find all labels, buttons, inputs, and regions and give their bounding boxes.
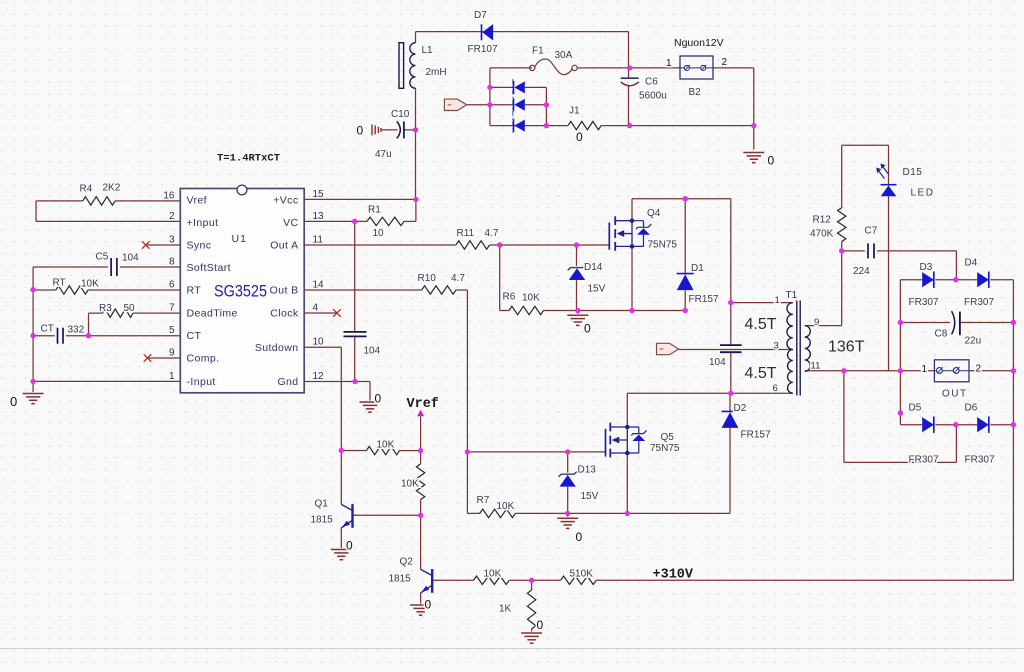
svg-text:10K: 10K (522, 293, 540, 304)
svg-text:D2: D2 (734, 403, 747, 414)
svg-text:1: 1 (922, 364, 928, 375)
svg-text:5: 5 (169, 325, 175, 336)
svg-text:+310V: +310V (653, 568, 694, 583)
svg-text:D13: D13 (578, 465, 597, 476)
svg-text:U1: U1 (232, 233, 247, 245)
svg-text:J1: J1 (569, 106, 580, 117)
svg-text:10K: 10K (401, 479, 419, 490)
svg-text:13: 13 (313, 211, 325, 222)
svg-text:C7: C7 (865, 226, 878, 237)
svg-text:Comp.: Comp. (187, 353, 220, 365)
svg-text:2K2: 2K2 (103, 183, 121, 194)
svg-text:D6: D6 (965, 403, 978, 414)
svg-text:-Input: -Input (187, 376, 216, 388)
svg-text:8: 8 (169, 257, 175, 268)
svg-text:1: 1 (666, 58, 672, 69)
svg-text:Sutdown: Sutdown (255, 342, 299, 354)
svg-text:R1: R1 (368, 205, 381, 216)
svg-text:F1: F1 (532, 46, 544, 57)
svg-text:R10: R10 (418, 273, 437, 284)
svg-text:+Input: +Input (187, 217, 219, 229)
svg-text:SG3525: SG3525 (214, 283, 267, 301)
svg-text:75N75: 75N75 (648, 240, 678, 251)
svg-text:0: 0 (584, 322, 591, 336)
svg-text:9: 9 (169, 348, 175, 359)
svg-text:Out A: Out A (270, 240, 298, 252)
svg-text:10: 10 (313, 337, 325, 348)
svg-text:470K: 470K (810, 229, 834, 240)
svg-text:CT: CT (187, 330, 202, 342)
svg-text:50: 50 (124, 303, 136, 314)
svg-text:0: 0 (537, 618, 544, 632)
svg-text:L1: L1 (422, 45, 434, 56)
svg-text:T1: T1 (786, 290, 798, 301)
svg-text:D1: D1 (691, 263, 704, 274)
svg-text:CT: CT (41, 324, 54, 335)
svg-text:FR107: FR107 (468, 44, 498, 55)
svg-text:C6: C6 (645, 77, 658, 88)
svg-text:C8: C8 (935, 329, 948, 340)
svg-text:10K: 10K (81, 279, 99, 290)
svg-text:D3: D3 (920, 262, 933, 273)
svg-text:1: 1 (169, 371, 175, 382)
svg-text:6: 6 (773, 383, 778, 394)
svg-text:D7: D7 (474, 10, 487, 21)
svg-text:R12: R12 (813, 215, 832, 226)
svg-text:9: 9 (814, 317, 819, 328)
svg-text:10: 10 (373, 228, 385, 239)
svg-text:Nguon12V: Nguon12V (674, 37, 724, 49)
svg-text:DeadTime: DeadTime (187, 308, 238, 320)
svg-text:0: 0 (425, 598, 432, 612)
svg-text:0: 0 (346, 539, 353, 553)
svg-text:11: 11 (811, 361, 821, 372)
svg-text:75N75: 75N75 (650, 443, 680, 454)
svg-text:Q5: Q5 (661, 432, 675, 443)
svg-text:VC: VC (283, 217, 298, 229)
svg-text:FR307: FR307 (964, 297, 994, 308)
svg-text:SoftStart: SoftStart (187, 262, 231, 274)
svg-text:15V: 15V (581, 491, 599, 502)
svg-text:T=1.4RTxCT: T=1.4RTxCT (217, 153, 280, 165)
svg-text:2: 2 (169, 211, 175, 222)
svg-text:332: 332 (68, 325, 85, 336)
svg-text:Vref: Vref (407, 397, 439, 412)
svg-text:4.7: 4.7 (451, 273, 465, 284)
svg-text:5600u: 5600u (639, 91, 667, 102)
svg-text:16: 16 (163, 190, 175, 201)
svg-text:510K: 510K (570, 569, 594, 580)
svg-text:30A: 30A (555, 50, 573, 61)
svg-text:3: 3 (774, 341, 779, 352)
svg-text:11: 11 (313, 235, 324, 246)
svg-text:4.7: 4.7 (485, 228, 499, 239)
svg-text:15V: 15V (588, 284, 606, 295)
svg-text:14: 14 (313, 280, 325, 291)
svg-text:136T: 136T (828, 339, 865, 356)
svg-text:D15: D15 (903, 167, 923, 178)
svg-text:47u: 47u (375, 149, 392, 160)
svg-text:7: 7 (169, 303, 175, 314)
svg-text:6: 6 (169, 280, 175, 291)
svg-text:4: 4 (313, 303, 319, 314)
svg-text:D4: D4 (965, 258, 978, 269)
svg-text:22u: 22u (965, 336, 982, 347)
svg-text:10K: 10K (377, 440, 395, 451)
svg-text:0: 0 (357, 124, 364, 138)
svg-text:224: 224 (853, 266, 870, 277)
svg-text:10K: 10K (484, 569, 502, 580)
svg-text:+Vcc: +Vcc (273, 194, 298, 206)
svg-text:1815: 1815 (311, 515, 334, 526)
svg-text:R3: R3 (99, 303, 112, 314)
svg-text:12: 12 (313, 371, 325, 382)
svg-text:D14: D14 (584, 262, 603, 273)
svg-text:FR157: FR157 (689, 294, 719, 305)
svg-text:D5: D5 (909, 403, 922, 414)
svg-text:RT: RT (187, 285, 202, 297)
svg-text:R6: R6 (503, 292, 516, 303)
svg-text:FR157: FR157 (741, 430, 771, 441)
svg-text:RT: RT (53, 278, 66, 289)
svg-text:LED: LED (911, 188, 935, 199)
svg-text:0: 0 (576, 530, 583, 544)
svg-text:2: 2 (722, 57, 728, 68)
svg-text:Q1: Q1 (315, 499, 329, 510)
svg-text:C10: C10 (391, 109, 410, 120)
svg-text:4.5T: 4.5T (745, 316, 777, 333)
svg-text:FR307: FR307 (909, 297, 939, 308)
svg-text:3: 3 (169, 235, 175, 246)
svg-text:2mH: 2mH (426, 67, 447, 78)
svg-text:104: 104 (122, 253, 139, 264)
svg-text:104: 104 (709, 357, 726, 368)
svg-text:R11: R11 (457, 228, 475, 239)
svg-text:Sync: Sync (187, 240, 212, 252)
svg-text:Q2: Q2 (400, 557, 414, 568)
svg-text:Out B: Out B (270, 285, 299, 297)
svg-text:OUT: OUT (942, 389, 968, 400)
svg-text:1: 1 (775, 295, 780, 306)
svg-text:15: 15 (313, 189, 325, 200)
svg-text:1815: 1815 (389, 574, 412, 585)
svg-text:0: 0 (576, 130, 583, 144)
svg-text:C5: C5 (96, 252, 109, 263)
svg-text:Q4: Q4 (647, 208, 661, 219)
svg-text:FR307: FR307 (965, 455, 995, 466)
svg-text:Clock: Clock (270, 308, 299, 320)
svg-text:R4: R4 (80, 184, 93, 195)
svg-text:10K: 10K (497, 501, 515, 512)
svg-text:1K: 1K (499, 604, 512, 615)
svg-text:R7: R7 (477, 495, 490, 506)
svg-text:Gnd: Gnd (277, 376, 298, 388)
svg-text:104: 104 (364, 346, 381, 357)
svg-text:FR307: FR307 (909, 455, 939, 466)
svg-text:0: 0 (768, 154, 775, 168)
svg-text:Vref: Vref (187, 194, 207, 206)
svg-text:B2: B2 (689, 87, 702, 98)
svg-text:0: 0 (10, 394, 17, 409)
svg-text:4.5T: 4.5T (745, 365, 777, 382)
svg-text:2: 2 (976, 364, 982, 375)
svg-text:0: 0 (375, 392, 382, 406)
